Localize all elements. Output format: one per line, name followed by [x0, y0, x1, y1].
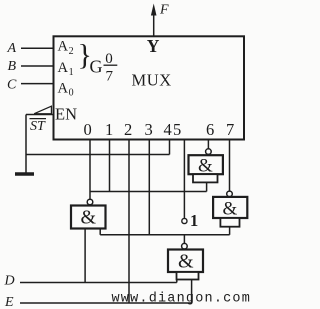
svg-text:0: 0 — [84, 120, 92, 139]
svg-text:A: A — [7, 41, 17, 56]
svg-text:G: G — [90, 57, 103, 77]
svg-text:&: & — [198, 155, 213, 176]
svg-text:&: & — [81, 207, 97, 229]
svg-text:3: 3 — [145, 120, 153, 139]
svg-text:D: D — [4, 274, 15, 289]
svg-text:&: & — [178, 251, 194, 273]
svg-text:A: A — [58, 39, 69, 55]
svg-text:MUX: MUX — [132, 71, 172, 90]
svg-text:2: 2 — [69, 46, 74, 57]
svg-text:F: F — [159, 2, 169, 17]
svg-text:A: A — [58, 60, 69, 76]
svg-text:1: 1 — [69, 67, 74, 78]
svg-text:6: 6 — [206, 120, 214, 139]
svg-text:1: 1 — [190, 211, 198, 230]
svg-text:2: 2 — [124, 120, 132, 139]
svg-text:C: C — [7, 78, 17, 93]
svg-text:0: 0 — [105, 51, 113, 67]
svg-text:B: B — [8, 59, 17, 74]
svg-text:E: E — [4, 295, 14, 309]
svg-text:7: 7 — [106, 69, 114, 85]
svg-text:www.diangon.com: www.diangon.com — [112, 292, 252, 307]
svg-text:0: 0 — [69, 88, 74, 99]
svg-text:7: 7 — [226, 120, 234, 139]
svg-text:EN: EN — [55, 105, 77, 124]
svg-text:1: 1 — [105, 120, 113, 139]
svg-text:Y: Y — [147, 36, 160, 56]
svg-text:ST: ST — [30, 119, 46, 134]
svg-text:&: & — [223, 198, 238, 219]
svg-text:4: 4 — [164, 120, 172, 139]
svg-text:5: 5 — [173, 120, 181, 139]
svg-text:A: A — [58, 80, 69, 96]
